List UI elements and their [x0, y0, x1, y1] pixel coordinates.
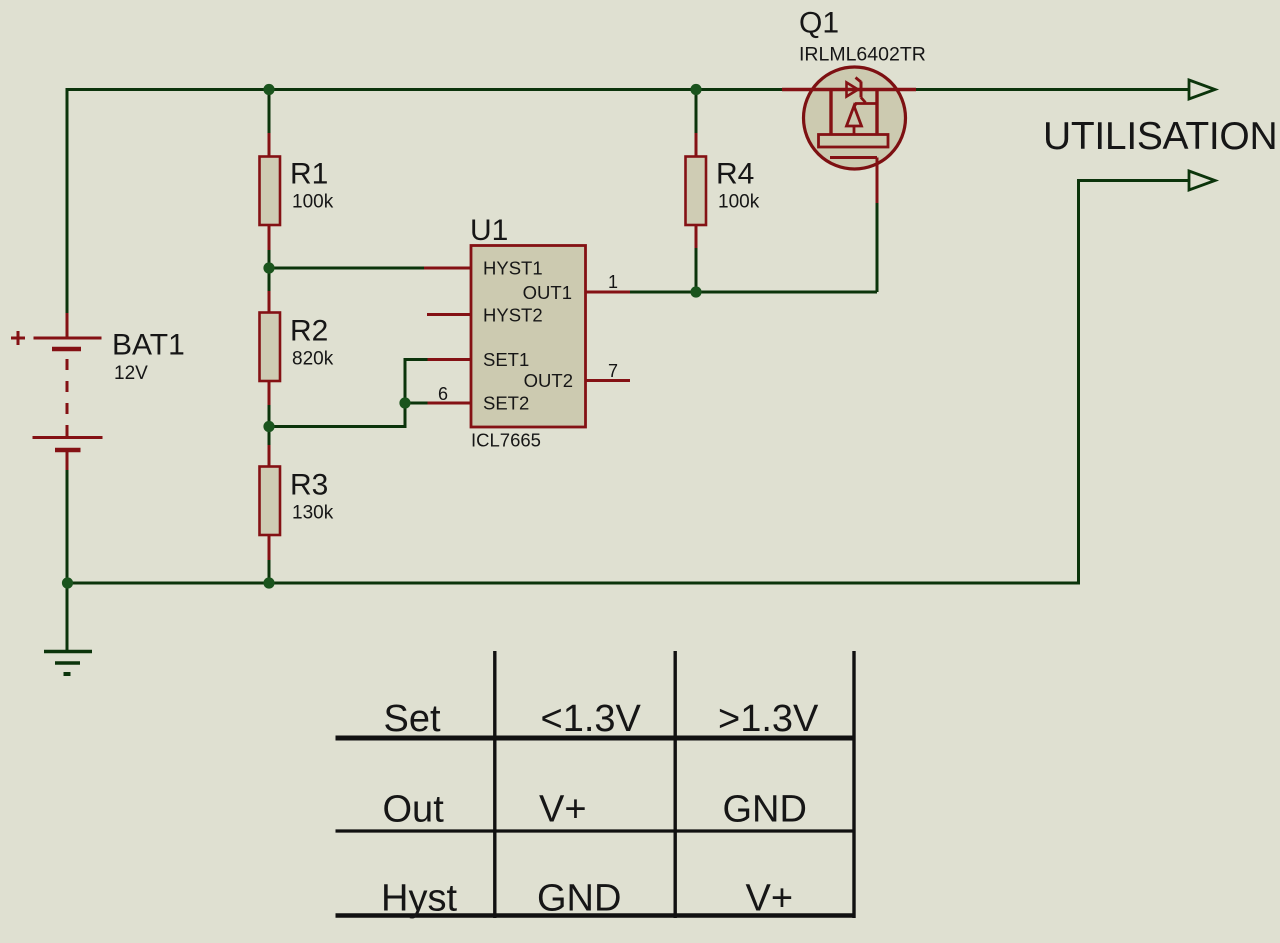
svg-text:R1: R1	[290, 158, 328, 191]
svg-text:GND: GND	[537, 878, 621, 920]
svg-text:U1: U1	[470, 214, 508, 247]
svg-text:12V: 12V	[114, 363, 148, 384]
svg-text:OUT2: OUT2	[524, 370, 573, 391]
svg-text:SET1: SET1	[483, 349, 529, 370]
svg-text:130k: 130k	[292, 503, 334, 524]
svg-text:UTILISATION: UTILISATION	[1043, 115, 1277, 158]
svg-text:7: 7	[608, 361, 618, 381]
svg-text:Set: Set	[384, 698, 441, 740]
svg-text:100k: 100k	[718, 192, 760, 213]
svg-text:V+: V+	[539, 789, 587, 831]
svg-text:1: 1	[608, 272, 618, 292]
svg-text:R2: R2	[290, 315, 328, 348]
svg-text:BAT1: BAT1	[112, 329, 185, 362]
svg-text:6: 6	[438, 384, 448, 404]
svg-text:>1.3V: >1.3V	[718, 698, 819, 740]
svg-text:ICL7665: ICL7665	[471, 430, 541, 451]
svg-text:Q1: Q1	[799, 7, 839, 40]
svg-text:820k: 820k	[292, 349, 334, 370]
svg-text:HYST1: HYST1	[483, 258, 543, 279]
svg-text:SET2: SET2	[483, 393, 529, 414]
svg-text:Out: Out	[383, 789, 445, 831]
svg-text:<1.3V: <1.3V	[541, 698, 642, 740]
svg-text:GND: GND	[723, 789, 807, 831]
svg-text:R4: R4	[716, 158, 754, 191]
svg-text:Hyst: Hyst	[381, 878, 457, 920]
svg-text:HYST2: HYST2	[483, 305, 543, 326]
svg-text:IRLML6402TR: IRLML6402TR	[799, 44, 926, 66]
svg-text:100k: 100k	[292, 192, 334, 213]
svg-text:V+: V+	[746, 878, 794, 920]
svg-text:OUT1: OUT1	[523, 282, 572, 303]
svg-text:R3: R3	[290, 469, 328, 502]
